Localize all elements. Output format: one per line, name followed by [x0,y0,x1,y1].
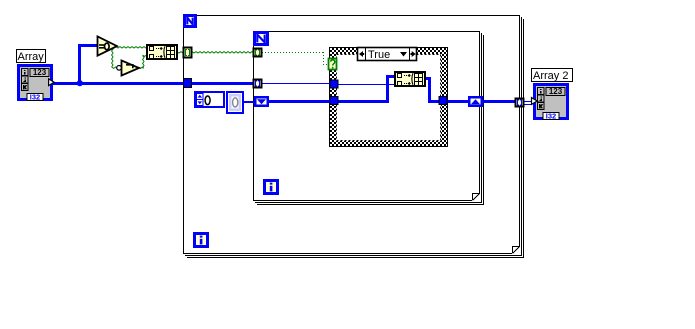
case selector decrement arrow [359,51,364,57]
case selector dropdown arrow [400,52,407,57]
inner for-loop count terminal N [253,31,269,46]
wire: inner tunnel to case tunnel (scalar, thin) [262,83,331,84]
wire: Build Array output to outer loop tunnel [177,52,184,53]
tunnel: inner loop auto-indexing tunnel (blue brackets) [254,80,262,88]
inner for-loop iteration terminal i [263,179,279,195]
outer for-loop stacked shadow frames [185,17,524,258]
outer for-loop iteration terminal i [193,232,209,248]
wire: shift register to case left tunnel (array, thick) [268,100,331,103]
wire: up shift register to outer loop output tunnel [482,100,516,103]
Not input bubble [117,66,122,71]
wire: case tunnel2 right then up into build-array [338,100,389,103]
inner for-loop stacked shadow frames [255,33,484,205]
wire: horizontal into Equal-to-0 input [78,44,97,47]
case structure checkered border [330,48,448,147]
Build Array function (top, booleans) [146,44,178,60]
Build Array function (inside case) [394,71,426,87]
tunnel: outer loop boolean-array output (green brackets) [184,48,192,58]
inner for-loop main border [253,31,480,201]
tunnel: case right tunnel (solid blue) [439,97,447,105]
svg-text:123: 123 [549,87,563,96]
inner for-loop folded corner [472,193,480,201]
svg-text:I32: I32 [546,112,556,121]
shift register (right, up arrow) [468,96,483,107]
svg-text:True: True [368,49,390,61]
svg-text:123: 123 [33,68,47,77]
tunnel: case left tunnel 2 (solid blue) [330,97,338,105]
svg-text:Array 2: Array 2 [533,70,568,82]
Array 2 indicator label [532,69,573,82]
wire: outer tunnel to inner loop indexing tunnel [192,82,254,85]
wire: case right tunnel to up shift register [447,100,469,103]
numeric constant 0 (with increment/decrement arrows) [195,92,224,107]
Array control terminal (3-D array of I32) [17,64,54,102]
wire: case tunnel1 to build-array input (thin) [338,84,395,85]
wire junction dot [77,80,83,86]
wire: Equal-to-0 output zigzag to Build Array input 1 [116,47,147,48]
svg-text:I32: I32 [30,93,40,102]
svg-text:Array: Array [18,51,45,63]
outer for-loop folded corner [512,246,520,254]
numeric constant 0 (selected display) [227,92,243,113]
wire: vertical branch up to Equal-to-0 [78,44,81,84]
case selector increment arrow [411,51,416,57]
tunnel: case left tunnel 1 (solid blue) [330,80,338,88]
wire: numeric constant to shift register [244,101,255,103]
wire: build-array output down to case right tunnel [425,77,431,80]
Not glyph [126,65,133,68]
tunnel: outer loop output tunnel (blue brackets) [516,99,524,107]
comparison function: Equal To 0? [98,37,118,56]
case selector label frame [358,48,417,61]
tunnel: inner loop boolean indexing tunnel (green brackets) [254,49,262,57]
case structure inner area [336,54,441,141]
wire: Not output up into Build Array input 2 [139,67,144,68]
outer for-loop main border [183,15,520,254]
outer for-loop count terminal N [183,14,197,28]
Array 2 indicator terminal [532,83,570,121]
wire: boolean-array zigzag between loop tunnels [192,52,254,53]
shift register (left, down arrow) [254,96,269,107]
Array control label [17,50,46,63]
wire: 2-D array double line to Array 2 indicator [523,101,532,102]
wire: Array control to outer loop tunnel (1-D array, thick blue) [53,82,184,85]
wire: dotted boolean from inner tunnel to case selector [262,52,329,65]
boolean Not function [122,61,140,76]
wire: branch down to Not gate (emerges below =0 triangle) [112,47,113,67]
tunnel: outer loop array input (solid blue square) [184,79,192,88]
case selector terminal ? [329,59,337,70]
